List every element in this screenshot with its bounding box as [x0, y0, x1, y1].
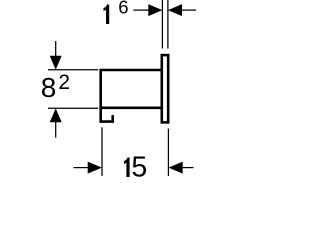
svg-text:2: 2: [58, 71, 70, 94]
dim 1.6 left arrowhead: [148, 4, 162, 16]
body bottom edge: [100, 107, 162, 110]
dim 8.2 bottom extension line: [48, 107, 98, 109]
wall flange plate: [162, 55, 168, 122]
dim 15 left leader: [74, 167, 89, 169]
dim 15 left extension line: [101, 127, 103, 176]
dim 15 right extension line: [167, 129, 169, 176]
svg-text:6: 6: [118, 0, 128, 18]
hook body outline: [101, 70, 162, 122]
dim 1.6 right arrowhead: [168, 4, 182, 16]
dim 8.2 top arrowhead: [50, 56, 62, 70]
dim 8.2 bottom leader: [55, 122, 57, 138]
dim 15 right leader: [183, 167, 194, 169]
dim 1.6 right extension line: [167, 0, 169, 49]
dim 1.6 digit 1: [104, 5, 110, 25]
dim 1.6 left leader: [134, 9, 149, 11]
dim 15 right arrowhead: [169, 162, 183, 174]
dim 8.2 bottom arrowhead: [50, 108, 62, 122]
dim 1.6 right leader: [182, 9, 196, 11]
svg-text:5: 5: [131, 152, 147, 180]
dim 1.6 left extension line: [161, 0, 163, 49]
svg-text:8: 8: [41, 72, 57, 103]
dim 8.2 top extension line: [48, 69, 98, 71]
dim 15 left arrowhead: [88, 162, 102, 174]
dim 8.2 top leader: [55, 41, 57, 56]
dim 15 digit 1: [124, 158, 130, 178]
